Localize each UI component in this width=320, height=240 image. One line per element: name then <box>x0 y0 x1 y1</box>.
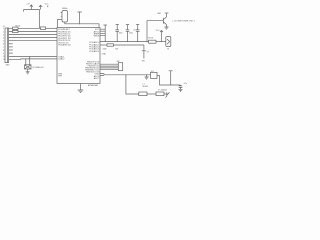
svg-text:9: 9 <box>3 53 4 55</box>
svg-text:11: 11 <box>3 59 5 61</box>
power flag +5V net label <box>26 3 30 5</box>
wire C1 right <box>46 27 58 29</box>
resistor R4 <box>149 40 166 43</box>
svg-text:VBUS: VBUS <box>94 36 100 38</box>
wire pin7 stub <box>9 46 13 48</box>
capacitor C7 <box>179 85 183 89</box>
power flag VCC T rail <box>104 25 107 29</box>
wire crystal tap 2 <box>29 57 31 65</box>
wire top-left rail <box>24 10 40 12</box>
svg-text:ADC7: ADC7 <box>94 77 100 80</box>
wire base top-right <box>147 21 163 42</box>
wire pin1 row <box>9 27 41 29</box>
svg-text:Q2 16MHz NC: Q2 16MHz NC <box>32 67 44 69</box>
svg-text:VCC: VCC <box>45 4 49 6</box>
svg-text:TX: TX <box>167 48 170 50</box>
power symbol VCC arrow 2 <box>39 5 42 9</box>
svg-text:PB7: PB7 <box>58 76 63 78</box>
ground mid right <box>145 75 149 79</box>
svg-text:5V: 5V <box>147 52 150 54</box>
wire GND bottom run <box>126 75 139 94</box>
resistor R1 <box>13 27 19 29</box>
wire pin8 stub <box>9 49 13 51</box>
svg-text:F1 500mA: F1 500mA <box>158 89 167 92</box>
wire pin3 row to IC <box>9 34 57 36</box>
note text top right <box>172 20 195 22</box>
svg-text:5: 5 <box>3 41 4 43</box>
connector J1 title <box>3 26 5 28</box>
wire U1 GND run <box>100 74 151 76</box>
fuse F1 label <box>158 89 167 92</box>
resistor R3 label <box>103 48 119 50</box>
svg-text:1: 1 <box>3 28 4 30</box>
svg-text:4.7u: 4.7u <box>184 83 188 85</box>
ground Q3 emitter <box>165 27 169 29</box>
capacitor C4 <box>136 25 140 43</box>
svg-text:XTAL2: XTAL2 <box>58 58 65 61</box>
resistor R4 label <box>148 38 154 40</box>
capacitor C3 label <box>129 33 133 35</box>
ground U1 bottom <box>78 84 84 93</box>
resistor R3 <box>107 44 144 46</box>
ferrite bead L1 <box>139 92 156 96</box>
svg-text:VIN: VIN <box>142 60 146 62</box>
svg-text:R4 1K: R4 1K <box>148 38 154 40</box>
power flag T right <box>169 71 173 85</box>
svg-text:6: 6 <box>3 44 4 46</box>
power flag VCC T <box>78 12 82 24</box>
capacitor C2 <box>115 25 119 43</box>
svg-text:16MHz: 16MHz <box>62 8 68 10</box>
capacitor C7 label <box>184 83 188 85</box>
svg-text:GND: GND <box>103 48 108 50</box>
U1 left pin labels <box>58 29 71 78</box>
svg-text:8: 8 <box>3 50 4 52</box>
svg-text:100n: 100n <box>129 33 133 35</box>
wire AVCC top rail <box>65 22 99 28</box>
svg-text:+5V: +5V <box>26 3 30 5</box>
svg-text:2: 2 <box>3 31 4 33</box>
wire vertical to DTR cap <box>39 10 41 29</box>
wire SJ1 to cap <box>160 75 181 85</box>
svg-text:PD6/AIN0 D6: PD6/AIN0 D6 <box>58 44 71 47</box>
connector ISP body <box>118 63 122 71</box>
jumper SJ1 <box>151 72 160 78</box>
U1 right pin labels <box>85 29 100 80</box>
power flag VCC arrow right <box>156 30 163 42</box>
wire U1 ISP pins <box>100 64 118 70</box>
svg-text:( +5V USB POWER ONLY ): ( +5V USB POWER ONLY ) <box>172 20 195 22</box>
node VCC label <box>45 4 49 8</box>
svg-text:GND: GND <box>6 64 11 66</box>
LED D1 label <box>167 48 170 50</box>
connector ISP label <box>117 61 121 63</box>
wire crystal tap 1 <box>25 59 27 65</box>
wire pin11 row XTAL2 <box>9 58 57 60</box>
crystal Q1 label <box>32 67 44 69</box>
power flag Q3 collector <box>157 13 168 15</box>
capacitor C4 label <box>133 30 135 32</box>
fuse F1 <box>156 92 167 96</box>
svg-text:XTAL: XTAL <box>102 53 106 56</box>
wire pin5 row to IC <box>9 40 57 42</box>
U1 part number label <box>88 84 99 87</box>
oscillator Y1 body <box>61 11 68 23</box>
oscillator Y1 value label <box>62 8 68 10</box>
svg-text:10: 10 <box>3 56 5 58</box>
svg-text:PC4/ADC4: PC4/ADC4 <box>89 50 100 53</box>
ground earth bottom <box>166 92 170 97</box>
wire U1 VCC rail pins <box>100 29 105 41</box>
connector J1 body <box>5 28 9 63</box>
wire pin4 row to IC <box>9 37 57 39</box>
resistor R2 <box>13 30 19 32</box>
transistor Q3 <box>163 13 166 27</box>
LED D1 <box>166 37 171 47</box>
crystal Q1 <box>25 65 32 69</box>
svg-text:100n: 100n <box>119 33 123 35</box>
ferrite bead L1 label <box>143 83 149 87</box>
wire pin10 row XTAL1 <box>9 56 57 58</box>
op-amp U1 IC body <box>57 28 100 84</box>
wire pin9 stub <box>9 52 13 54</box>
wire AREF branch <box>100 44 107 46</box>
wire oscillator to IC <box>57 20 60 28</box>
svg-text:USB: USB <box>157 13 161 15</box>
ground C7 <box>179 89 183 91</box>
wire pin2 row to IC <box>9 30 57 32</box>
power flag +5V mid right <box>142 45 150 62</box>
node XTAL label <box>102 53 106 56</box>
wire pin6 stub <box>9 43 13 45</box>
ground crystal <box>26 69 30 74</box>
svg-text:BLM21: BLM21 <box>143 86 149 88</box>
capacitor C2 label <box>119 33 123 35</box>
connector J1 pin numbers <box>3 28 5 61</box>
ground J1 label <box>6 64 11 66</box>
svg-text:10K: 10K <box>115 48 119 50</box>
capacitor C1 <box>41 27 46 30</box>
resistor R2 label <box>13 30 19 32</box>
power symbol VCC arrow <box>30 5 33 10</box>
capacitor C3 <box>126 25 130 43</box>
svg-text:7: 7 <box>3 47 4 49</box>
svg-text:C4: C4 <box>133 30 135 32</box>
svg-text:4: 4 <box>3 38 4 40</box>
svg-text:VCC: VCC <box>156 30 160 32</box>
resistor R1 label <box>15 26 21 28</box>
svg-text:3: 3 <box>3 34 4 36</box>
svg-text:ATMEGA8: ATMEGA8 <box>88 84 99 87</box>
wire VCC bus <box>100 41 149 42</box>
jumper SJ1 label <box>151 71 154 73</box>
